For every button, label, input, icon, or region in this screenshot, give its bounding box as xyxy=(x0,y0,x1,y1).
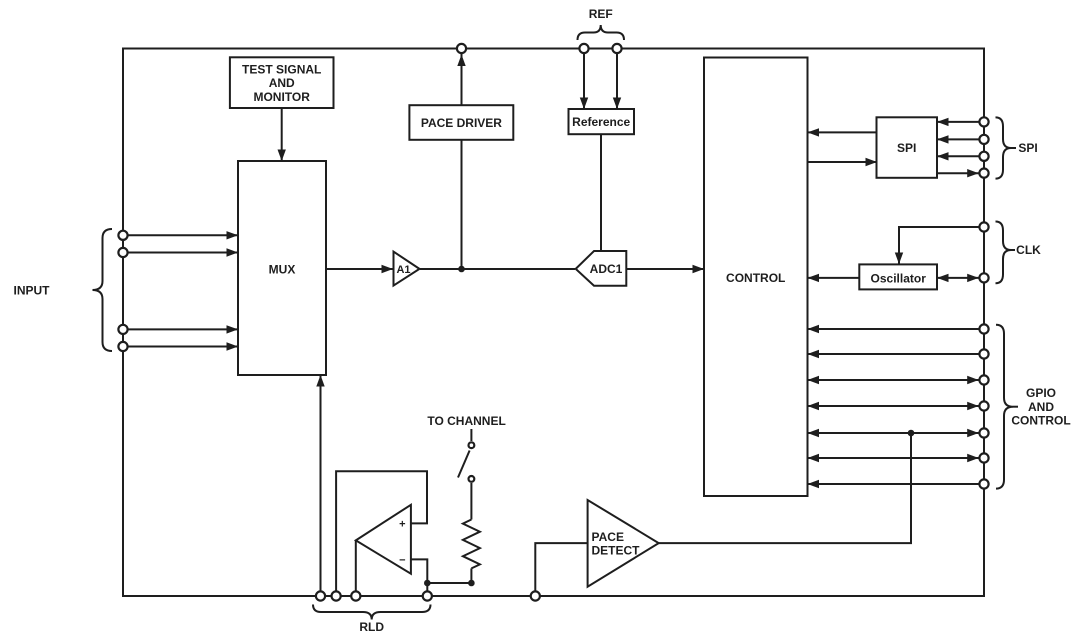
wire PACE DETECT input xyxy=(535,543,587,596)
brace SPI group xyxy=(996,117,1012,178)
terminal GPIO pin 5 xyxy=(979,428,988,437)
wire SPI pin 1 xyxy=(937,121,979,123)
terminal CLK pin 2 xyxy=(979,273,988,282)
resistor R1 xyxy=(463,520,480,569)
svg-text:Oscillator: Oscillator xyxy=(871,271,927,285)
terminal RLD pin 3 xyxy=(351,591,360,600)
wire GPIO line 4 xyxy=(808,405,979,407)
label CLK xyxy=(1016,243,1041,257)
terminal RLD pin 1 xyxy=(316,591,325,600)
wire input 2 to MUX xyxy=(128,252,238,254)
junction node inverting input xyxy=(424,580,431,587)
comparator PACE DETECT xyxy=(588,500,659,587)
terminal RLD pin 4 xyxy=(423,591,432,600)
wire resistor to node xyxy=(470,568,472,583)
terminal GPIO pin 2 xyxy=(979,349,988,358)
ADC A1 converter ADC1 xyxy=(576,251,627,286)
terminal SPI pin 3 xyxy=(979,152,988,161)
wire Reference to ADC1 xyxy=(600,134,602,252)
terminal SPI pin 4 xyxy=(979,169,988,178)
svg-text:Reference: Reference xyxy=(572,115,630,129)
arrowhead GPIO 7 into CONTROL xyxy=(808,480,820,488)
svg-text:AND: AND xyxy=(269,76,295,90)
brace RLD group xyxy=(313,605,431,620)
wire CLK input to Oscillator xyxy=(899,227,979,264)
wire input 4 to MUX xyxy=(128,346,238,348)
arrowhead GPIO 1 into CONTROL xyxy=(808,325,820,333)
terminal GPIO pin 1 xyxy=(979,324,988,333)
svg-text:A1: A1 xyxy=(396,264,410,276)
tick GPIO label xyxy=(1013,406,1018,408)
terminal CLK pin 1 xyxy=(979,222,988,231)
junction node A1 output / pace driver xyxy=(458,266,465,273)
terminal GPIO pin 6 xyxy=(979,453,988,462)
arrowhead RLD into MUX xyxy=(316,375,324,387)
terminal input pin 2 xyxy=(118,248,127,257)
arrowhead REF1 into Reference xyxy=(580,98,588,110)
wire op-amp output to terminal xyxy=(355,540,357,596)
wire PACE DETECT output xyxy=(659,433,911,543)
terminal pace driver output xyxy=(457,44,466,53)
wire input 1 to MUX xyxy=(128,234,238,236)
terminal GPIO pin 3 xyxy=(979,375,988,384)
arrowhead REF2 into Reference xyxy=(613,98,621,110)
svg-text:SPI: SPI xyxy=(1018,141,1037,155)
wire MUX output to A1 xyxy=(326,268,393,270)
svg-text:PACE DRIVER: PACE DRIVER xyxy=(421,116,502,130)
arrowhead osc-term right xyxy=(967,274,979,282)
label REF xyxy=(589,7,613,21)
block MUX xyxy=(238,161,326,375)
wire GPIO line 2 xyxy=(808,353,979,355)
arrowhead ADC1 into CONTROL xyxy=(693,265,705,273)
svg-text:TO CHANNEL: TO CHANNEL xyxy=(427,414,505,428)
tick CLK label xyxy=(1011,249,1015,251)
arrowhead GPIO 3 into CONTROL xyxy=(808,376,820,384)
arrowhead GPIO 2 into CONTROL xyxy=(808,350,820,358)
label SPI xyxy=(1018,141,1037,155)
junction node GPIO line 5 / pace detect xyxy=(908,430,915,437)
wire RLD to MUX xyxy=(320,375,322,596)
arrowhead input 3 into MUX xyxy=(227,325,239,333)
svg-text:INPUT: INPUT xyxy=(14,283,51,297)
terminal SPI pin 2 xyxy=(979,135,988,144)
terminal SPI pin 1 xyxy=(979,117,988,126)
wire SPI to CONTROL xyxy=(808,131,878,133)
wire REF terminal 1 to Reference xyxy=(583,53,585,109)
block Reference xyxy=(569,109,635,134)
tick SPI label xyxy=(1011,147,1016,149)
svg-text:REF: REF xyxy=(589,7,613,21)
label INPUT xyxy=(14,283,51,297)
wire CONTROL to SPI xyxy=(808,161,878,163)
wire SPI pin 2 xyxy=(937,138,979,140)
brace CLK group xyxy=(996,222,1012,284)
wire switch to resistor xyxy=(470,483,472,520)
op-amp A1 xyxy=(394,252,420,286)
terminal pace detect input xyxy=(531,591,540,600)
brace REF group xyxy=(578,25,625,40)
op-amp RLD amplifier xyxy=(356,505,411,574)
block TEST SIGNAL AND MONITOR xyxy=(230,57,334,108)
arrowhead input 4 into MUX xyxy=(227,342,239,350)
arrowhead GPIO 4 to terminal xyxy=(967,402,979,410)
svg-text:CLK: CLK xyxy=(1016,243,1041,257)
wire GPIO line 7 xyxy=(808,483,979,485)
wire input 3 to MUX xyxy=(128,328,238,330)
label TO CHANNEL xyxy=(427,414,505,428)
arrowhead SPI into CONTROL xyxy=(808,128,820,136)
terminal REF pin 1 xyxy=(579,44,588,53)
wire Oscillator to CONTROL xyxy=(808,277,860,279)
switch S1 top contact xyxy=(469,442,475,448)
wire A1 output to ADC1 xyxy=(420,268,575,270)
svg-text:MUX: MUX xyxy=(269,262,296,276)
arrowhead into A1 xyxy=(382,265,394,273)
wire PACE DRIVER output up to top terminal xyxy=(461,54,463,269)
arrowhead GPIO 6 into CONTROL xyxy=(808,454,820,462)
block SPI xyxy=(877,117,938,178)
arrowhead CONTROL into SPI xyxy=(866,158,878,166)
wire op-amp inverting input to node xyxy=(411,559,472,583)
wire SPI pin 4 output xyxy=(937,172,979,174)
wire TO CHANNEL stub xyxy=(470,429,472,441)
arrowhead SPI pin 4 to terminal xyxy=(967,169,979,177)
svg-text:−: − xyxy=(399,554,405,566)
terminal input pin 3 xyxy=(118,325,127,334)
arrowhead GPIO 6 to terminal xyxy=(967,454,979,462)
block Oscillator xyxy=(859,264,937,289)
arrowhead into top PACE terminal xyxy=(457,55,465,67)
svg-text:GPIO: GPIO xyxy=(1026,386,1056,400)
svg-text:RLD: RLD xyxy=(359,620,384,634)
arrowhead SPI pin 3 into SPI xyxy=(937,152,949,160)
svg-text:ADC1: ADC1 xyxy=(590,262,623,276)
wire op-amp noninverting input loop xyxy=(336,471,427,596)
terminal input pin 1 xyxy=(118,231,127,240)
wire GPIO line 3 xyxy=(808,379,979,381)
arrowhead Oscillator into CONTROL xyxy=(808,274,820,282)
arrowhead CLK into Oscillator xyxy=(895,253,903,265)
terminal REF pin 2 xyxy=(612,44,621,53)
wire GPIO line 5 xyxy=(808,432,979,434)
arrowhead GPIO 3 to terminal xyxy=(967,376,979,384)
terminal input pin 4 xyxy=(118,342,127,351)
wire TEST SIGNAL to MUX xyxy=(278,108,286,161)
svg-text:DETECT: DETECT xyxy=(592,544,641,558)
wire inverting node to terminal xyxy=(426,583,428,596)
svg-text:+: + xyxy=(399,518,405,530)
wire REF terminal 2 to Reference xyxy=(616,53,618,109)
svg-text:TEST SIGNAL: TEST SIGNAL xyxy=(242,62,321,76)
chip boundary border xyxy=(123,49,984,597)
wire ADC1 output to CONTROL xyxy=(627,268,704,270)
arrowhead SPI pin 2 into SPI xyxy=(937,135,949,143)
block PACE DRIVER xyxy=(409,105,513,140)
arrowhead SPI pin 1 into SPI xyxy=(937,118,949,126)
junction node resistor bottom xyxy=(468,580,475,587)
arrowhead input 2 into MUX xyxy=(227,248,239,256)
svg-text:SPI: SPI xyxy=(897,141,916,155)
arrowhead input 1 into MUX xyxy=(227,231,239,239)
brace INPUT group xyxy=(93,229,113,351)
label GPIO AND CONTROL xyxy=(1011,386,1070,427)
wire SPI pin 3 xyxy=(937,155,979,157)
wire GPIO line 1 xyxy=(808,328,979,330)
svg-text:CONTROL: CONTROL xyxy=(726,271,785,285)
terminal RLD pin 2 xyxy=(332,591,341,600)
arrowhead GPIO 4 into CONTROL xyxy=(808,402,820,410)
svg-text:MONITOR: MONITOR xyxy=(253,90,310,104)
label RLD xyxy=(359,620,384,634)
arrowhead GPIO 5 into CONTROL xyxy=(808,429,820,437)
wire GPIO line 6 xyxy=(808,457,979,459)
brace GPIO group xyxy=(996,325,1013,489)
arrowhead GPIO 5 to terminal xyxy=(967,429,979,437)
svg-text:AND: AND xyxy=(1028,400,1054,414)
switch S1 bottom contact xyxy=(469,476,475,482)
wire Oscillator to CLK terminal xyxy=(937,277,979,279)
block CONTROL xyxy=(704,58,808,497)
switch S1 lever xyxy=(458,451,470,478)
svg-text:CONTROL: CONTROL xyxy=(1011,414,1070,428)
arrowhead osc-term left xyxy=(937,274,949,282)
terminal GPIO pin 7 xyxy=(979,479,988,488)
svg-text:PACE: PACE xyxy=(592,530,624,544)
terminal GPIO pin 4 xyxy=(979,401,988,410)
